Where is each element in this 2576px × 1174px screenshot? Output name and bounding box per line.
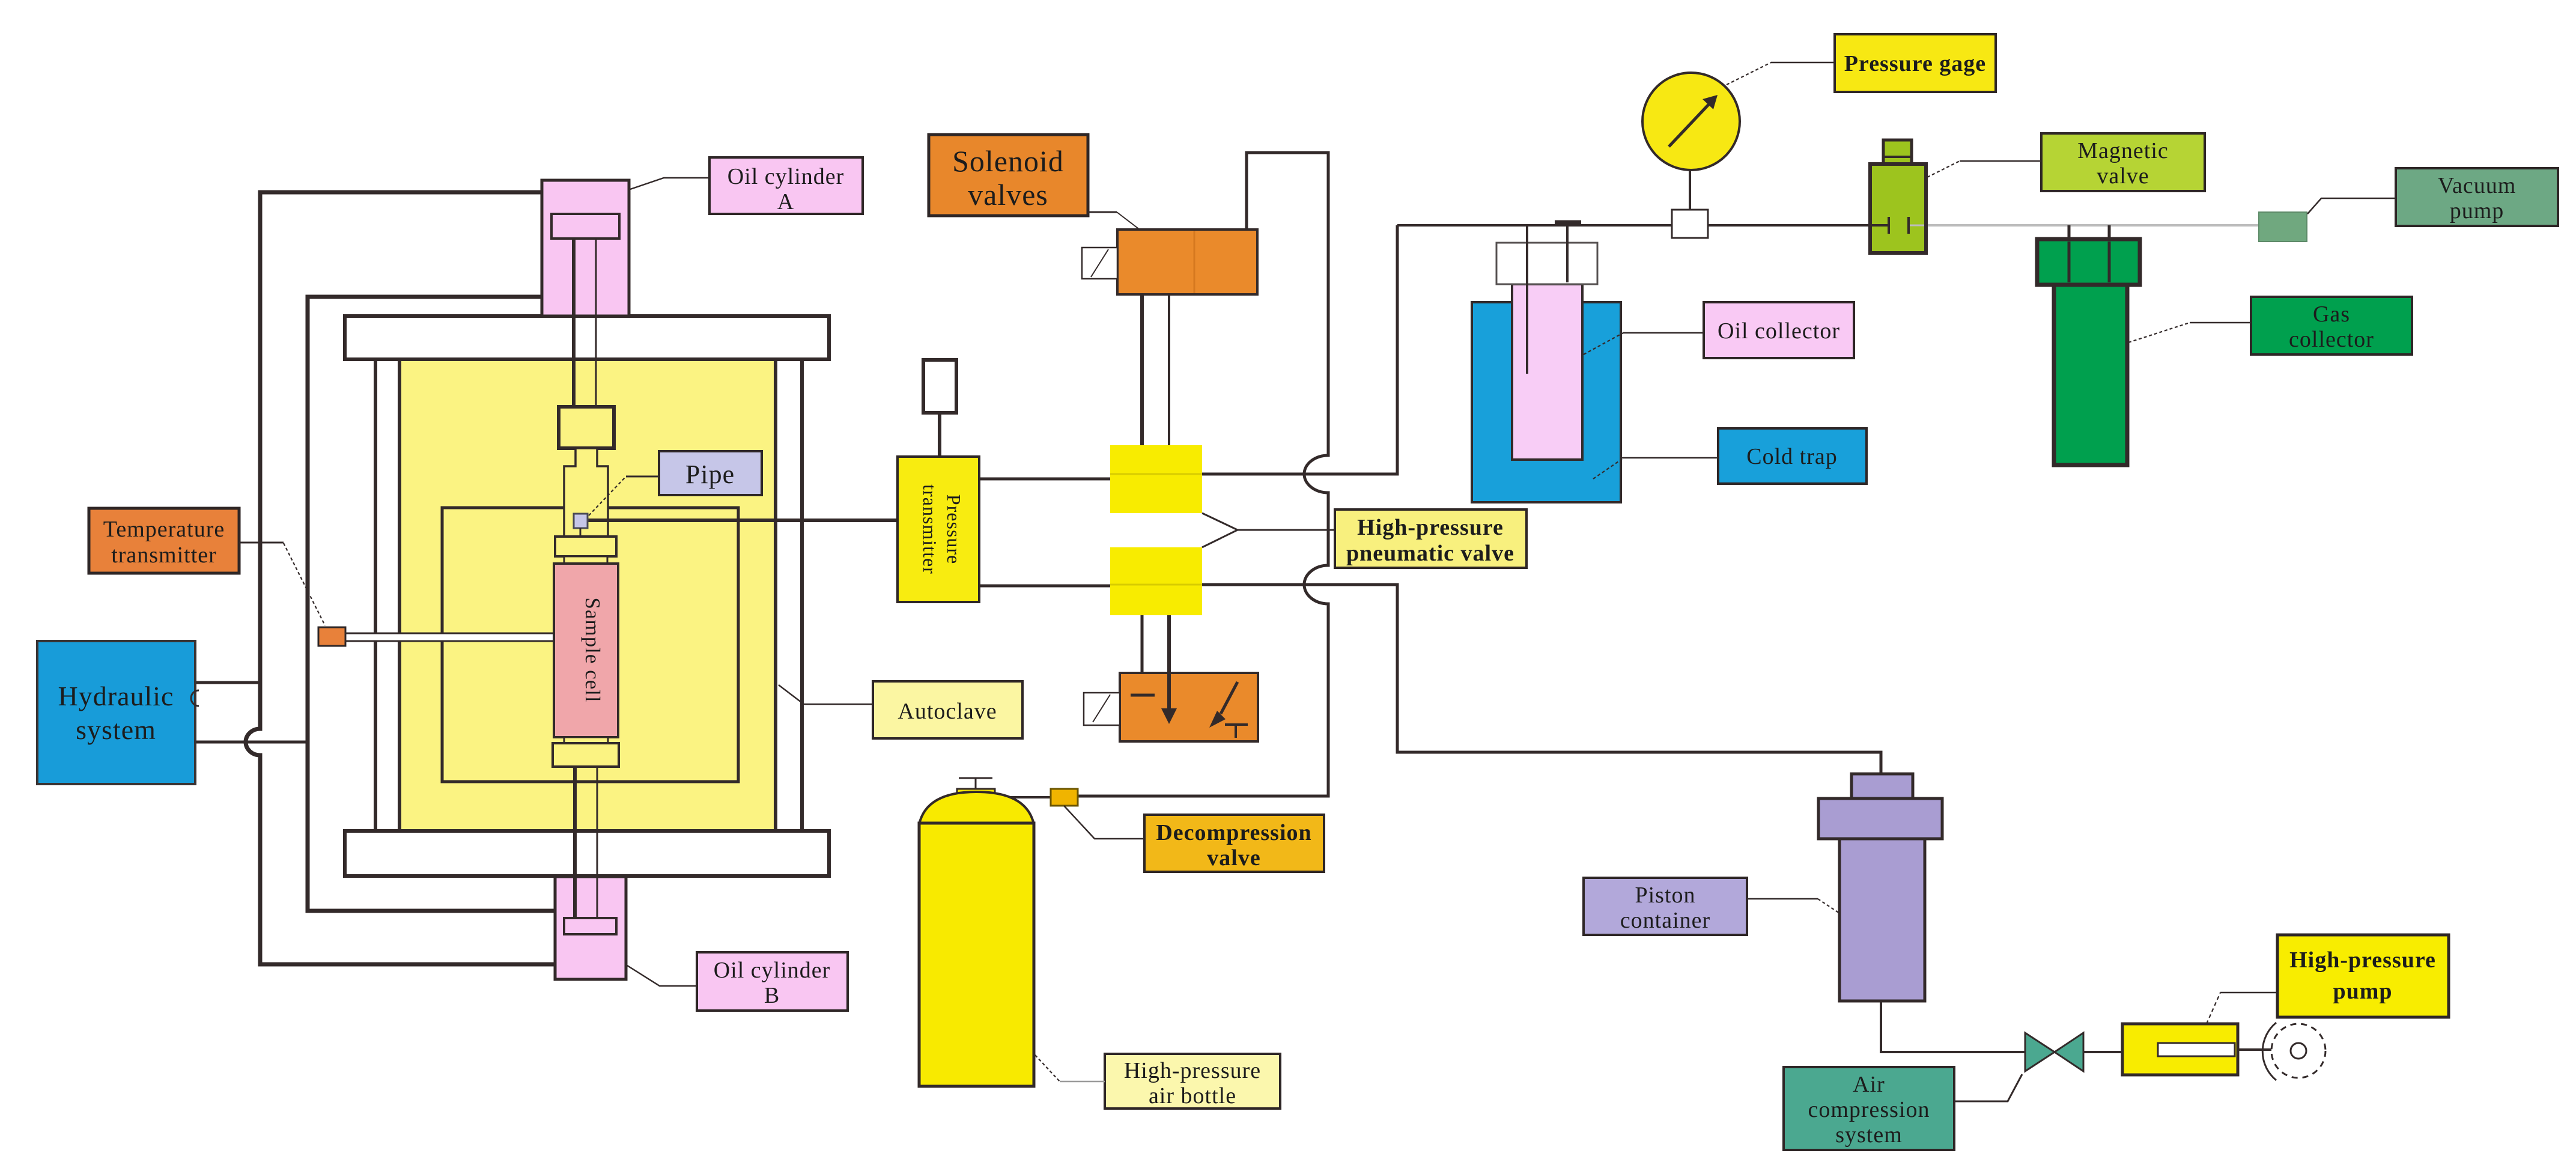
oil cylinder B label (697, 952, 848, 1011)
leader piston container (1747, 899, 1839, 913)
oil collector tube (1512, 284, 1582, 460)
leader oil collector (1584, 333, 1704, 354)
gas collector label (2251, 297, 2412, 354)
sample cell bottom cap (553, 737, 619, 767)
temperature transmitter label (89, 508, 239, 573)
magnetic valve label (2041, 133, 2205, 191)
cold trap label (1718, 428, 1867, 484)
piston container label (1584, 878, 1747, 935)
leader high-pressure air bottle (1035, 1055, 1105, 1081)
svg-text:valve: valve (2097, 163, 2149, 189)
autoclave label (873, 681, 1022, 738)
svg-text:Gas: Gas (2313, 302, 2350, 327)
svg-text:Piston: Piston (1635, 883, 1695, 908)
wire transmitter to pneumatic valve 2 (979, 585, 1110, 588)
magnetic valve (1870, 140, 1926, 253)
high-pressure pump body (2122, 1024, 2238, 1075)
wire pair pneumatic valve 2 to solenoid 2 (1142, 615, 1169, 673)
svg-text:Pipe: Pipe (685, 460, 735, 489)
svg-text:Hydraulic: Hydraulic (58, 681, 174, 711)
solenoid valves label (929, 135, 1088, 216)
svg-text:High-pressure: High-pressure (2289, 947, 2436, 973)
pressure sensor head (923, 360, 956, 457)
svg-text:A: A (777, 189, 794, 214)
leader magnetic valve (1927, 161, 2041, 177)
lower piston rod (575, 767, 597, 919)
leader cold trap (1593, 458, 1718, 479)
sample cell (554, 564, 618, 737)
leader pipe (589, 476, 659, 516)
wire pneumatic valve 2 to piston container (1202, 585, 1881, 775)
wire hydraulic circuit 1 (oil cylinder A top to oil cylinder B bottom) (246, 192, 555, 964)
high-pressure pump label (2277, 935, 2449, 1017)
svg-text:Oil cylinder: Oil cylinder (714, 958, 831, 983)
wire air bottle to decompression valve (995, 796, 1051, 798)
shutoff bowtie valve (2025, 1033, 2083, 1071)
main gas line grey segment to vacuum pump (1924, 224, 2259, 227)
solenoid valve 1 (1117, 230, 1257, 294)
thermocouple probe double line into sample cell (345, 633, 554, 641)
pump motor (2262, 1023, 2325, 1080)
pipe fitting square (574, 514, 588, 537)
cold trap inlet dip tube (1526, 225, 1528, 374)
svg-text:Vacuum: Vacuum (2438, 173, 2517, 198)
pressure gage label (1835, 34, 1996, 92)
oil cylinder A label (709, 157, 863, 214)
autoclave heater yellow body (399, 359, 776, 831)
leader oil cylinder B (627, 966, 697, 986)
wire pump to motor (2238, 1048, 2271, 1051)
leader solenoid valves (1088, 212, 1140, 230)
wire pneumatic valve 1 to main gas line (1202, 225, 1397, 474)
press top crossbar (345, 316, 829, 359)
svg-text:valve: valve (1207, 845, 1260, 871)
pneumatic valve block 1 (1110, 445, 1202, 513)
svg-text:system: system (1835, 1122, 1903, 1148)
junction tick on main line (1555, 221, 1581, 226)
gas collector inlet tubes (2069, 225, 2109, 240)
pressure gauge (1642, 73, 1740, 238)
press left column (375, 359, 399, 831)
svg-text:Pressure gage: Pressure gage (1844, 51, 1986, 76)
upper plunger (564, 448, 608, 537)
leader vacuum pump (2307, 198, 2396, 214)
svg-text:High-pressure: High-pressure (1357, 515, 1504, 540)
press right column (776, 359, 802, 831)
press bottom crossbar (345, 831, 829, 876)
oil cylinder B piston (564, 918, 616, 934)
pneumatic valve block 2 (1110, 547, 1202, 615)
high-pressure air bottle (919, 778, 1034, 1086)
svg-text:High-pressure: High-pressure (1124, 1058, 1261, 1083)
chevron pointer to pneumatic valve label (1202, 513, 1335, 547)
wire air compression system to valve (1954, 1074, 2022, 1101)
sample cell top cap (555, 537, 616, 564)
svg-text:Pressure: Pressure (943, 494, 965, 564)
svg-text:system: system (76, 714, 156, 745)
wire hydraulic system top output (193, 681, 262, 684)
high-pressure pneumatic valve label (1335, 509, 1526, 568)
solenoid valve 2 (1120, 673, 1258, 741)
leader oil cylinder A (630, 178, 709, 189)
oil collector label (1704, 302, 1854, 358)
svg-text:Air: Air (1853, 1072, 1885, 1097)
upper piston rod (574, 239, 596, 407)
svg-text:Magnetic: Magnetic (2077, 138, 2169, 163)
pressure transmitter box (898, 457, 979, 602)
vacuum pump label (2396, 168, 2558, 226)
oil cylinder B (555, 877, 626, 979)
wire valve to high-pressure pump (2083, 1051, 2122, 1053)
inner vessel liner (442, 508, 738, 782)
svg-text:pump: pump (2450, 198, 2505, 224)
svg-text:pneumatic valve: pneumatic valve (1346, 541, 1514, 566)
solenoid valve 1 coil box (1082, 248, 1117, 279)
wire pipe to pressure transmitter (588, 519, 898, 522)
svg-text:valves: valves (968, 178, 1048, 211)
vacuum pump inlet block (2259, 212, 2307, 242)
leader autoclave (779, 685, 873, 704)
svg-text:pump: pump (2333, 979, 2392, 1004)
leader temperature transmitter (239, 543, 325, 625)
svg-text:compression: compression (1808, 1097, 1930, 1122)
gas collector (2037, 239, 2140, 465)
svg-text:B: B (764, 983, 780, 1008)
cold trap outlet tube (1566, 225, 1569, 282)
hook loop on hydraulic box edge (191, 690, 199, 706)
leader high-pressure pump (2207, 993, 2277, 1024)
svg-text:collector: collector (2289, 327, 2374, 352)
air compression system label (1784, 1067, 1954, 1150)
high-pressure air bottle label (1105, 1054, 1280, 1109)
svg-text:transmitter: transmitter (111, 543, 217, 568)
decompression valve label (1144, 815, 1324, 872)
upper press block (559, 407, 614, 448)
svg-text:Autoclave: Autoclave (898, 699, 997, 724)
solenoid valve 2 coil box (1084, 693, 1120, 725)
wire hydraulic system bottom output (193, 741, 308, 744)
svg-text:Solenoid: Solenoid (952, 144, 1064, 178)
thermocouple block (318, 627, 345, 646)
svg-text:Decompression: Decompression (1156, 820, 1311, 845)
svg-text:Sample cell: Sample cell (581, 597, 604, 702)
hydraulic system box (37, 641, 195, 784)
piston container (1818, 774, 1942, 1001)
leader pressure gage (1727, 62, 1835, 85)
cold trap dewar (1472, 302, 1621, 502)
svg-text:Temperature: Temperature (103, 517, 225, 542)
main gas line dark segment (1397, 224, 1872, 227)
leader decompression valve (1064, 806, 1144, 839)
decompression valve (1051, 789, 1078, 806)
wire hydraulic circuit 2 (oil cylinder A lower to oil cylinder B upper) (308, 297, 555, 911)
wire transmitter to pneumatic valve 1 (979, 478, 1110, 481)
wire solenoid 1 top loop to decompression line (1078, 153, 1328, 796)
svg-text:Oil collector: Oil collector (1718, 318, 1840, 344)
leader gas collector (2128, 323, 2251, 342)
svg-text:Oil cylinder: Oil cylinder (728, 164, 845, 189)
oil cylinder A (542, 180, 629, 316)
svg-text:container: container (1620, 908, 1710, 933)
pipe label (659, 451, 762, 495)
oil cylinder A piston (551, 214, 619, 239)
svg-text:air bottle: air bottle (1149, 1083, 1236, 1109)
wire piston container to shutoff valve (1881, 1001, 2025, 1052)
svg-text:transmitter: transmitter (919, 484, 941, 574)
svg-text:Cold trap: Cold trap (1746, 444, 1837, 469)
cold trap cap (1496, 243, 1597, 284)
wire pair solenoid 1 to pneumatic valve 1 (1142, 294, 1169, 445)
